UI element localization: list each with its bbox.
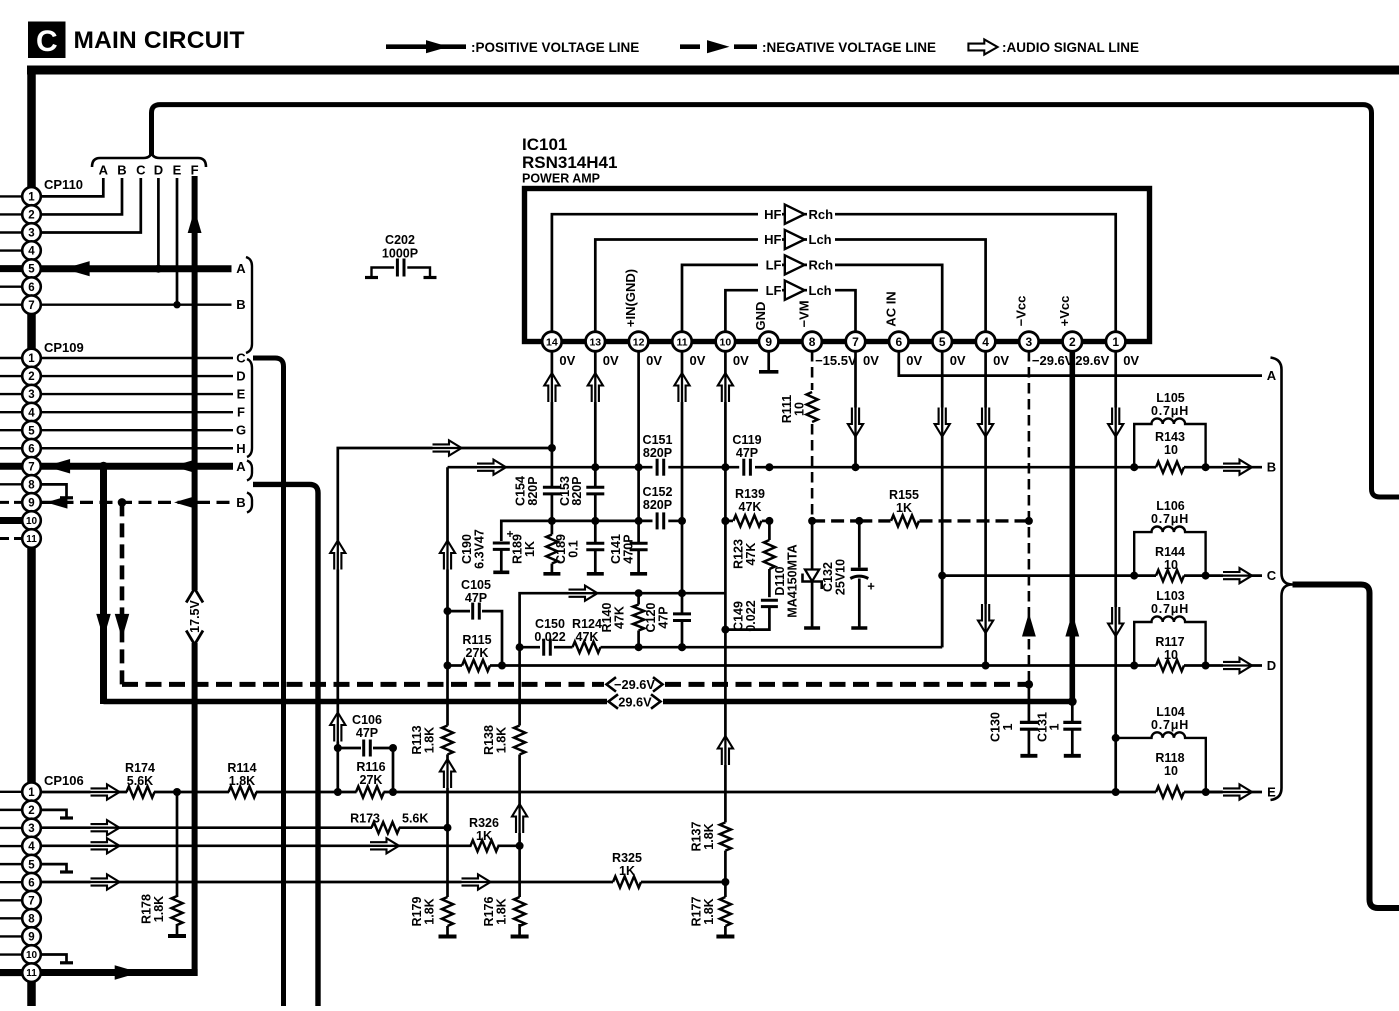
- audio arrow mid pin4 line: [370, 838, 399, 853]
- audio arrow B out: [1223, 460, 1252, 475]
- svg-text:1.8K: 1.8K: [152, 896, 166, 922]
- svg-text:−29.6V: −29.6V: [614, 677, 655, 692]
- left stubs CP106: [0, 791, 23, 793]
- arrow up on +Vcc line: [1065, 613, 1079, 637]
- wire CP110 pin3 to C: [41, 178, 141, 233]
- node R140 top: [635, 589, 643, 597]
- wire R139 branch: [725, 520, 733, 523]
- audio arrow mid pin6 line: [462, 874, 491, 889]
- audio arrow CP106 pin6: [91, 874, 120, 889]
- wire E line from CP106 pin1: [41, 791, 127, 794]
- svg-text:7: 7: [28, 300, 34, 312]
- inductor L104: [1116, 732, 1206, 792]
- resistor R138: [518, 647, 521, 725]
- svg-text::NEGATIVE VOLTAGE LINE: :NEGATIVE VOLTAGE LINE: [762, 40, 936, 55]
- resistor R174: [127, 786, 155, 797]
- node pin7-B: [852, 463, 860, 471]
- svg-text:1K: 1K: [523, 541, 537, 557]
- svg-text:2: 2: [28, 210, 34, 222]
- resistor R326: [471, 840, 499, 851]
- wire -29.6V vertical dashed: [120, 502, 125, 684]
- node C106 right: [389, 744, 397, 752]
- node R178 top: [173, 788, 181, 796]
- ground pin9: [767, 351, 770, 372]
- wire thick output from brace: [1293, 585, 1399, 909]
- arrow up on F line: [188, 209, 202, 233]
- node pin10-630: [721, 626, 729, 634]
- svg-text::POSITIVE VOLTAGE LINE: :POSITIVE VOLTAGE LINE: [471, 40, 639, 55]
- capacitor C152: [656, 512, 659, 529]
- node L106 left: [1130, 572, 1138, 580]
- svg-text:9: 9: [28, 932, 34, 944]
- voltage label 17.5V: [186, 589, 203, 603]
- wire pin8 drop dashed: [811, 351, 814, 390]
- wire CP110 pin1 to A: [41, 178, 103, 196]
- capacitor C130: [1028, 684, 1031, 721]
- audio arrow pin1 lower: [1108, 607, 1123, 636]
- resistor R189: [546, 535, 557, 564]
- arrow on pin11 line: [115, 965, 140, 980]
- svg-text:Rch: Rch: [809, 207, 834, 222]
- svg-text:C202: C202: [385, 233, 415, 247]
- svg-text:F: F: [237, 405, 245, 420]
- svg-text:29.6V: 29.6V: [1075, 353, 1109, 368]
- svg-text:1: 1: [28, 192, 35, 204]
- svg-text:MA4150MTA: MA4150MTA: [786, 544, 800, 617]
- svg-text:IC101: IC101: [522, 135, 567, 154]
- svg-text:CP106: CP106: [44, 773, 84, 788]
- svg-text:C106: C106: [352, 713, 382, 727]
- svg-text:11: 11: [676, 336, 687, 348]
- svg-text:0V: 0V: [733, 353, 749, 368]
- svg-text:17.5V: 17.5V: [188, 600, 202, 633]
- resistor R111: [807, 392, 818, 422]
- node E-B junction: [173, 301, 180, 308]
- svg-text:R325: R325: [612, 851, 642, 865]
- svg-text:10: 10: [26, 516, 38, 527]
- wire pin13 drop: [594, 351, 597, 487]
- svg-text:11: 11: [26, 534, 37, 545]
- arrow up on -Vcc line: [1022, 613, 1036, 637]
- node A-29.6V riser junction: [99, 462, 108, 471]
- node L104 right: [1202, 788, 1210, 796]
- wire y647 line: [520, 646, 540, 649]
- diode D110: [811, 521, 814, 570]
- bracket CP110 A-B: [246, 257, 252, 353]
- node pin2-29.6V: [1068, 697, 1077, 706]
- svg-text:0.7μH: 0.7μH: [1151, 512, 1189, 526]
- svg-text:820P: 820P: [643, 498, 672, 512]
- svg-text:47K: 47K: [744, 543, 758, 566]
- node L105 right: [1202, 463, 1210, 471]
- svg-text:0V: 0V: [646, 353, 662, 368]
- wire -29.6V rail dashed: [122, 682, 604, 687]
- wire net A riser: [253, 484, 318, 1006]
- wire x447 vertical: [446, 467, 449, 725]
- svg-text:10: 10: [1164, 443, 1178, 457]
- svg-text:H: H: [236, 441, 245, 456]
- svg-text:−Vcc: −Vcc: [1013, 296, 1028, 327]
- svg-text:4: 4: [28, 841, 35, 853]
- terminal R177 end: [716, 935, 734, 939]
- op-amp HF Lch wires: [595, 240, 785, 333]
- svg-text:14: 14: [546, 336, 558, 348]
- svg-text:1.8K: 1.8K: [423, 898, 437, 924]
- IC IC101 body: [525, 189, 1150, 342]
- resistor R114: [229, 786, 257, 797]
- svg-text:CP110: CP110: [44, 177, 83, 192]
- wire left bus: [27, 66, 36, 1007]
- node pin14-521: [548, 517, 556, 525]
- svg-text:3: 3: [28, 228, 34, 240]
- resistor R123: [768, 521, 771, 540]
- wire C line: [942, 574, 1134, 577]
- node R326 right: [516, 842, 524, 850]
- svg-text:R144: R144: [1155, 545, 1185, 559]
- resistor R144: [1134, 574, 1156, 577]
- audio arrow riser-338 lower: [330, 713, 345, 742]
- audio arrow above R326 node: [512, 804, 527, 833]
- node C106 left: [334, 744, 342, 752]
- wire pin6 to net A: [899, 351, 1262, 376]
- wire B line: [448, 466, 653, 469]
- node pin12-521: [635, 517, 643, 525]
- svg-text:C152: C152: [643, 485, 673, 499]
- svg-text:L105: L105: [1156, 391, 1185, 405]
- svg-text:B: B: [236, 495, 245, 510]
- svg-text:E: E: [237, 387, 246, 402]
- capacitor C105: [448, 610, 471, 613]
- svg-text:10: 10: [26, 950, 38, 961]
- audio arrow riser-338 upper: [330, 541, 345, 570]
- svg-text:C: C: [36, 25, 58, 58]
- resistor R113: [442, 726, 453, 755]
- svg-text:2: 2: [28, 371, 34, 383]
- node C120 bottom: [678, 643, 686, 651]
- svg-text:0V: 0V: [559, 353, 575, 368]
- audio arrow pin5: [935, 408, 950, 437]
- svg-text:C119: C119: [732, 433, 761, 447]
- terminal pin14 end: [543, 572, 560, 576]
- svg-text:B: B: [236, 297, 245, 312]
- svg-text:5.6K: 5.6K: [402, 812, 428, 826]
- svg-text:0V: 0V: [1123, 353, 1139, 368]
- svg-text:820P: 820P: [570, 476, 584, 505]
- node L103 right: [1202, 662, 1210, 670]
- wire E line right part: [1184, 791, 1222, 794]
- svg-text:10: 10: [720, 336, 732, 348]
- audio arrow on y593: [569, 586, 598, 601]
- svg-text:D: D: [1267, 658, 1276, 673]
- svg-text::AUDIO SIGNAL LINE: :AUDIO SIGNAL LINE: [1002, 40, 1139, 55]
- node pin13-B: [591, 463, 599, 471]
- svg-text:10: 10: [1164, 558, 1178, 572]
- svg-text:1000P: 1000P: [382, 247, 418, 261]
- svg-text:0.022: 0.022: [744, 600, 758, 631]
- audio arrow pin10: [718, 373, 733, 402]
- bracket CP109 A: [247, 461, 252, 481]
- svg-text:A: A: [1267, 368, 1277, 383]
- wire CP110 pin7 to B line: [41, 304, 232, 306]
- bracket CP109 C-H: [247, 359, 252, 457]
- left stubs CP110: [0, 195, 23, 197]
- audio arrow pin1 upper: [1108, 408, 1123, 437]
- svg-text:10: 10: [793, 402, 807, 416]
- capacitor C153: [586, 486, 604, 489]
- svg-text:5: 5: [28, 264, 35, 276]
- svg-text:11: 11: [26, 968, 37, 979]
- svg-text:CP109: CP109: [44, 340, 84, 355]
- wire input riser x338: [338, 448, 552, 792]
- svg-text:GND: GND: [753, 302, 768, 331]
- svg-text:MAIN CIRCUIT: MAIN CIRCUIT: [74, 27, 245, 54]
- wire pin10 drop: [724, 351, 727, 822]
- wire upper loop line: [152, 105, 1399, 497]
- node L106 right: [1202, 572, 1210, 580]
- svg-text:7: 7: [28, 461, 34, 473]
- svg-text:+: +: [506, 527, 513, 541]
- capacitor C131: [1071, 702, 1074, 722]
- capacitor C106: [338, 747, 361, 750]
- wire net C riser: [253, 358, 284, 1006]
- svg-text:1K: 1K: [619, 864, 635, 878]
- svg-text:5: 5: [939, 335, 946, 349]
- svg-text:+: +: [867, 579, 875, 594]
- svg-text:R143: R143: [1155, 430, 1185, 444]
- svg-text:−VM: −VM: [797, 300, 812, 327]
- svg-text:0.7μH: 0.7μH: [1151, 404, 1189, 418]
- svg-text:8: 8: [28, 479, 35, 491]
- node pin11-521: [678, 517, 686, 525]
- node R140 bottom: [635, 643, 643, 651]
- svg-text:R116: R116: [356, 760, 385, 774]
- svg-text:0.1: 0.1: [567, 540, 581, 557]
- svg-text:R326: R326: [469, 816, 499, 830]
- svg-text:12: 12: [633, 336, 645, 348]
- connector CP109 pins: [22, 349, 41, 368]
- inductor L106: [1134, 526, 1205, 575]
- wire net B dashed (CP109 pin9): [41, 501, 233, 504]
- node R115 left: [444, 662, 452, 670]
- stub CP106 pin10: [41, 955, 67, 963]
- svg-text:L104: L104: [1156, 705, 1185, 719]
- stub CP106 pin5: [41, 864, 67, 872]
- svg-text:LF: LF: [766, 283, 782, 298]
- left stubs CP109: [0, 357, 23, 359]
- node pin11-647: [678, 643, 686, 651]
- wire D out: [1206, 664, 1262, 667]
- svg-text:1.8K: 1.8K: [229, 774, 255, 788]
- svg-text:L106: L106: [1156, 499, 1185, 513]
- svg-text:C105: C105: [461, 578, 491, 592]
- svg-text:HF: HF: [764, 207, 781, 222]
- resistor R178: [176, 792, 179, 897]
- arrows on CP109 B line: [46, 496, 67, 509]
- svg-text:10: 10: [1164, 764, 1178, 778]
- node y647 left: [516, 643, 524, 651]
- svg-text:4: 4: [28, 407, 35, 419]
- audio arrow on B line left: [477, 460, 506, 475]
- svg-text:3: 3: [1026, 335, 1033, 349]
- node pin8-R155: [808, 517, 816, 525]
- resistor R179: [442, 897, 453, 926]
- svg-text:Lch: Lch: [809, 232, 832, 247]
- svg-text:1.8K: 1.8K: [702, 823, 716, 849]
- brace right nets A-E: [1271, 358, 1293, 801]
- audio arrow CP106 pin3: [91, 820, 120, 835]
- capacitor C120: [673, 612, 691, 615]
- wire CP110 pin2 to B: [41, 178, 122, 214]
- svg-text:470P: 470P: [622, 534, 636, 563]
- svg-text:AC IN: AC IN: [883, 291, 898, 326]
- terminal pin12 end: [630, 572, 647, 576]
- svg-text:C: C: [1267, 568, 1277, 583]
- arrow down on 29.6V vertical: [96, 614, 111, 639]
- wire 29.6V vertical from CP109 A: [100, 466, 107, 704]
- audio arrow below R113: [440, 759, 455, 788]
- svg-text:R118: R118: [1155, 751, 1184, 765]
- resistor R140: [637, 593, 640, 604]
- inductor L103: [1134, 616, 1205, 665]
- audio arrow CP106 pin4: [91, 838, 120, 853]
- wire pin11 drop: [681, 351, 684, 614]
- svg-text:C151: C151: [643, 433, 673, 447]
- svg-text:1: 1: [1112, 335, 1119, 349]
- wire pin4 drop: [984, 351, 987, 666]
- svg-text:B: B: [117, 163, 126, 178]
- svg-text:0.7μH: 0.7μH: [1151, 718, 1189, 732]
- wire net F vertical: [192, 176, 198, 590]
- audio arrow above R137: [718, 736, 733, 765]
- svg-text:Lch: Lch: [809, 283, 832, 298]
- wire y593 line: [520, 593, 726, 647]
- node R139 left: [721, 517, 729, 525]
- op-amp LF Rch: [785, 255, 805, 274]
- svg-text:0V: 0V: [603, 353, 619, 368]
- bracket CP109 B: [247, 493, 252, 513]
- svg-text:2: 2: [28, 805, 34, 817]
- svg-text:R114: R114: [227, 761, 256, 775]
- svg-text:47P: 47P: [736, 446, 758, 460]
- terminal R179 end: [439, 935, 457, 939]
- node x447-pin3line: [444, 824, 452, 832]
- svg-text:4: 4: [28, 246, 35, 258]
- op-amp HF Rch: [785, 205, 805, 224]
- wire y521 line: [501, 521, 652, 541]
- wire pin1 drop: [1114, 351, 1117, 792]
- svg-text:D: D: [154, 163, 163, 178]
- svg-text:R124: R124: [572, 617, 602, 631]
- capacitor C119: [742, 459, 745, 476]
- svg-text:1K: 1K: [476, 829, 492, 843]
- legend negative voltage line: [680, 44, 700, 49]
- node pin14-448: [548, 444, 556, 452]
- svg-text:3: 3: [28, 823, 34, 835]
- svg-text:8: 8: [28, 914, 35, 926]
- resistor R115: [448, 664, 463, 667]
- wire net E vertical: [176, 178, 179, 305]
- node pin1-L104: [1112, 734, 1120, 742]
- svg-text:27K: 27K: [466, 646, 489, 660]
- svg-text:L103: L103: [1156, 589, 1185, 603]
- svg-text:1: 1: [28, 353, 35, 365]
- node pin12-B: [635, 463, 643, 471]
- svg-text:−15.5V: −15.5V: [815, 353, 857, 368]
- svg-text:1: 1: [1048, 723, 1062, 730]
- svg-text:6: 6: [28, 443, 34, 455]
- svg-text:47K: 47K: [613, 606, 627, 629]
- node D-A junction: [154, 265, 162, 273]
- wire E out: [1206, 791, 1262, 794]
- wire pin12 drop: [637, 351, 640, 543]
- audio arrow E out: [1223, 784, 1252, 799]
- svg-text:R115: R115: [462, 633, 491, 647]
- svg-text:A: A: [99, 163, 109, 178]
- node pin10-521: [721, 517, 729, 525]
- wire pin2 +Vcc thick with 29.6V rail: [104, 351, 1073, 702]
- svg-text:0V: 0V: [863, 353, 879, 368]
- voltage label 29.6V: [607, 695, 663, 708]
- arrow on net A line: [64, 261, 90, 276]
- svg-text:820P: 820P: [643, 446, 672, 460]
- svg-text:E: E: [173, 163, 182, 178]
- resistor R173: [372, 822, 400, 833]
- node pin13-521: [591, 517, 599, 525]
- resistor R124: [573, 642, 601, 653]
- node B-769: [765, 463, 773, 471]
- resistor R177: [724, 882, 727, 897]
- svg-text:HF: HF: [764, 232, 781, 247]
- legend positive voltage line: [386, 44, 466, 49]
- svg-text:47K: 47K: [576, 630, 599, 644]
- capacitor C189: [586, 542, 604, 545]
- terminal R178 end: [168, 934, 186, 938]
- svg-text:27K: 27K: [360, 773, 383, 787]
- svg-text:5: 5: [28, 425, 35, 437]
- audio arrow pin4 lower: [978, 604, 993, 633]
- resistor R118: [1156, 786, 1184, 797]
- audio arrow pin11: [674, 373, 689, 402]
- resistor R176: [518, 846, 521, 897]
- svg-text:47K: 47K: [739, 500, 762, 514]
- capacitor C141: [630, 542, 648, 545]
- wire top supply bar: [27, 66, 1399, 75]
- node pin1-E: [1112, 788, 1120, 796]
- capacitor C151: [656, 459, 659, 476]
- svg-text:7: 7: [852, 335, 859, 349]
- resistor R155: [891, 515, 919, 526]
- svg-text:C150: C150: [535, 617, 565, 631]
- wire B out: [1206, 466, 1262, 469]
- audio arrow C out: [1223, 568, 1252, 583]
- terminal pin13 end: [587, 572, 604, 576]
- svg-text:R173: R173: [350, 812, 380, 826]
- svg-text:4: 4: [982, 335, 989, 349]
- svg-text:LF: LF: [766, 258, 782, 273]
- wire pin5 drop: [941, 351, 944, 647]
- op-amp HF Lch: [785, 230, 805, 249]
- svg-text:R174: R174: [125, 761, 155, 775]
- svg-text:0V: 0V: [690, 353, 706, 368]
- svg-text:−29.6V: −29.6V: [1032, 353, 1074, 368]
- svg-text:1.8K: 1.8K: [495, 727, 509, 753]
- audio arrow on 448 line: [433, 440, 462, 455]
- audio arrow pin14: [544, 373, 559, 402]
- svg-text:13: 13: [589, 336, 601, 348]
- capacitor C150: [542, 639, 545, 656]
- svg-text:1: 1: [1001, 723, 1015, 730]
- svg-text:3: 3: [28, 389, 34, 401]
